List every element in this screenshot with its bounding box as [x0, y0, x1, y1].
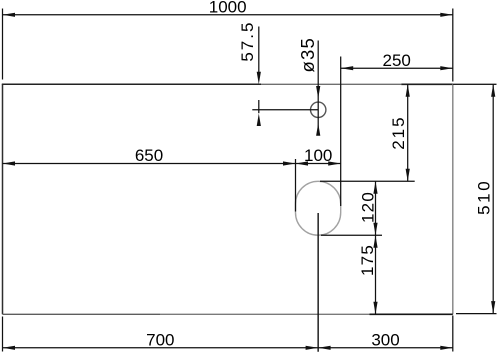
- extension line sink top: [320, 180, 415, 182]
- svg-text:250: 250: [383, 51, 411, 70]
- extension line 510 top: [453, 83, 497, 85]
- panel outline top edge right segment: [401, 83, 453, 85]
- panel outline bottom edge left segment: [3, 313, 161, 315]
- extension line 1000 right: [452, 9, 454, 82]
- panel outline top edge left segment: [2, 83, 261, 85]
- dimension 300: [318, 331, 453, 350]
- dimension 57.5 lower arrow: [257, 100, 261, 126]
- faucet hole circle ø35: [311, 102, 326, 117]
- panel outline bottom edge right segment: [370, 313, 453, 315]
- svg-text:700: 700: [146, 331, 174, 350]
- dimension 650: [3, 146, 296, 165]
- dimension 120: [373, 181, 377, 235]
- svg-text:1000: 1000: [209, 0, 247, 17]
- dimension ø35 bottom arrow: [316, 123, 320, 136]
- dimension 100: [296, 146, 341, 165]
- svg-text:650: 650: [135, 146, 163, 165]
- svg-text:215: 215: [389, 115, 408, 149]
- extension line bottom right: [452, 316, 454, 352]
- dimension 57.5 upper arrow: [257, 27, 261, 85]
- dimension 700: [3, 331, 319, 350]
- dimension ø35 centreline: [317, 41, 319, 131]
- dimension ø35 top arrow: [316, 86, 320, 99]
- dimension 215: [406, 84, 410, 181]
- dimension 175: [373, 235, 377, 314]
- svg-text:57.5: 57.5: [238, 21, 257, 62]
- svg-text:120: 120: [359, 191, 378, 223]
- svg-text:100: 100: [304, 146, 332, 165]
- extension line sink left tangent: [295, 159, 297, 212]
- svg-text:300: 300: [371, 331, 399, 350]
- dimension 510: [491, 84, 495, 313]
- extension line sink bottom: [321, 234, 382, 236]
- dimension 1000: [3, 0, 453, 17]
- panel outline left edge: [2, 84, 4, 314]
- dimension 250: [341, 51, 453, 71]
- svg-text:510: 510: [475, 179, 494, 215]
- panel outline right edge: [452, 84, 454, 314]
- panel outline top edge middle segment: [261, 83, 401, 85]
- panel outline bottom edge middle segment: [160, 313, 370, 315]
- svg-text:ø35: ø35: [297, 37, 318, 72]
- sink cutout obround 100x120: [296, 181, 341, 235]
- extension line 510 bottom: [456, 313, 497, 315]
- centreline sink to bottom dimension: [317, 213, 319, 352]
- leader line to faucet centre: [252, 109, 318, 111]
- svg-text:175: 175: [358, 244, 377, 276]
- extension line sink right tangent: [340, 57, 342, 207]
- extension line 1000 left: [2, 9, 4, 80]
- extension line bottom left: [2, 317, 4, 352]
